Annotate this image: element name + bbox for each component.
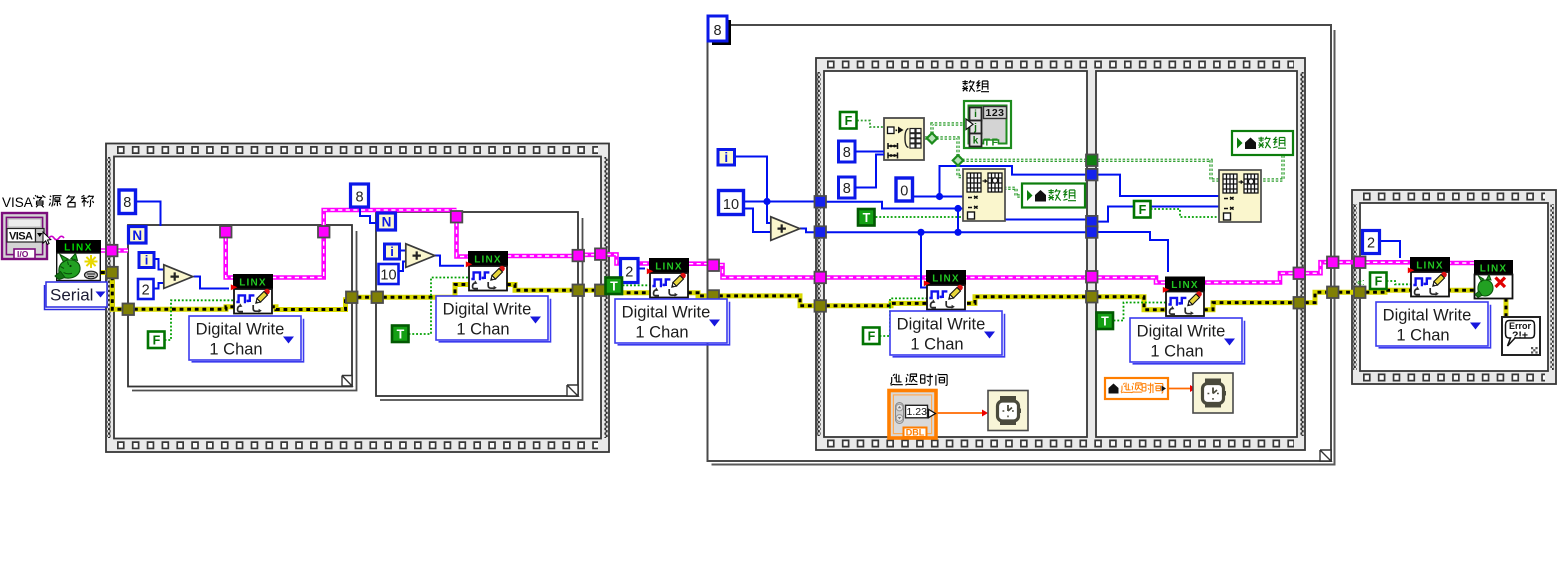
svg-text:8: 8 <box>355 190 363 206</box>
loop1 N terminal <box>129 227 147 244</box>
F constant (frame B) <box>1134 201 1151 218</box>
wire green: F_B to replace array B <box>1151 209 1223 217</box>
wire olive: out of big loop to frame3 <box>1305 290 1474 302</box>
svg-text:8: 8 <box>843 145 851 161</box>
numeric constant 8 (big loop count) with black shadow <box>708 16 731 45</box>
wire olive: inside big loop to frame A <box>719 296 816 306</box>
svg-text:VISA: VISA <box>9 231 33 243</box>
label digital write 3 <box>615 299 730 345</box>
tunnels (blue + green) <box>815 155 1098 238</box>
wire pink: inside big loop to frame A <box>719 265 816 278</box>
svg-text:?!+: ?!+ <box>1512 330 1528 342</box>
tunnel olive: big loop right <box>1327 287 1339 299</box>
wire blue: add2 to DW2 <box>433 256 464 266</box>
svg-text:1.23: 1.23 <box>907 406 928 418</box>
wire blue: 0 path up and over to divider <box>912 166 1090 197</box>
wire pink: to big loop right edge and frame3 <box>1305 262 1474 273</box>
numeric constant 8 (frame A lower) <box>839 177 856 198</box>
svg-text:N: N <box>382 215 392 230</box>
wire pink: DW3 to big loop <box>689 261 708 266</box>
replace array subset node A <box>963 169 1005 221</box>
tunnel olive: frame1 right <box>595 285 607 297</box>
tunnel pink: big loop left <box>708 260 720 272</box>
F constant loop1 <box>148 332 165 349</box>
tunnel blue: divider middle <box>1086 216 1098 228</box>
T constant (frame A) <box>858 209 875 226</box>
wire array: frame B long green into replace B <box>1098 156 1284 180</box>
wire blue: frame B top <box>1098 175 1223 196</box>
wire array: replace A out to local <box>1004 188 1022 196</box>
numeric constant 8 (loop2) <box>351 184 369 207</box>
wait (ms) block 1 <box>988 391 1028 431</box>
T constant loop2 <box>392 326 409 343</box>
big for loop (right) <box>708 25 1335 465</box>
tunnel olive: inner seq right <box>1294 297 1306 309</box>
tunnel blue: divider bottom <box>1086 226 1098 238</box>
wires: green array wires (thicker woven) <box>857 121 1283 197</box>
svg-text:0: 0 <box>900 184 908 200</box>
green diamond junctions on array wire <box>927 133 963 166</box>
svg-text:8: 8 <box>713 23 721 39</box>
wire olive: DW2 out to frame1 edge <box>507 285 595 291</box>
tunnel olive: inner seq divider <box>1086 291 1098 303</box>
tunnel blue: divider top <box>1086 169 1098 181</box>
numeric constant 2 (middle) <box>621 259 639 283</box>
red arrow into wait block 2 <box>1190 385 1196 392</box>
tunnel blue: inner seq left upper <box>815 196 827 208</box>
wire pink squiggle from VISA to LINX open <box>49 236 64 240</box>
flat sequence frame 3 (far right) <box>1352 190 1556 384</box>
svg-text:DBL: DBL <box>906 428 925 438</box>
wire pink: frame B through DW5 <box>1098 273 1294 282</box>
T constant (frame B, for DW5) <box>1097 313 1114 330</box>
tunnels (olive) <box>106 267 1365 315</box>
svg-text:k: k <box>973 136 979 147</box>
svg-text:10: 10 <box>723 197 739 213</box>
wire olive: between loops <box>358 285 470 298</box>
wires: pink LINX resource wires <box>101 210 1474 283</box>
wire blue: const 2 to add <box>153 283 165 289</box>
add node 3 <box>771 217 800 241</box>
wire blue: 8 to N of loop1 <box>135 202 161 227</box>
replace array subset node B <box>1219 170 1261 222</box>
wire olive: LINX close down to error out <box>1504 298 1509 318</box>
LINX digital write 4 (frame A) <box>924 270 966 310</box>
wire olive: frame B through DW5 <box>1098 297 1294 310</box>
wire green: F to DW6 <box>1387 281 1412 284</box>
label digital write 1 <box>189 316 304 362</box>
for loop 2 (inside frame 1) <box>376 212 583 400</box>
label digital write 5 <box>1130 318 1245 364</box>
local variable array (frame A) <box>1022 184 1085 208</box>
orange wires <box>937 389 1196 414</box>
label digital write 4 <box>890 311 1005 357</box>
tunnel pink: loop2 right <box>573 250 585 261</box>
tunnel pink: loop1 top left <box>220 226 232 238</box>
wires: olive error cluster wires <box>101 273 1506 319</box>
LINX digital write 5 (frame B) <box>1163 277 1205 317</box>
wire blue: i1 to add <box>154 259 164 270</box>
label delay time (yan chi shi jian) <box>890 374 947 386</box>
svg-text:LINX: LINX <box>64 243 93 254</box>
svg-text:N: N <box>132 228 142 243</box>
svg-text:2: 2 <box>625 265 633 281</box>
svg-text:8: 8 <box>843 181 851 197</box>
wire green: T to DW3 <box>623 284 651 286</box>
tunnel olive: loop1 left <box>123 304 135 316</box>
wire pink: over loops to loop2, into DW2 <box>324 210 469 257</box>
numeric constant 10 <box>379 264 399 284</box>
add node 1 <box>164 265 193 289</box>
wire green: F to DW4 <box>880 298 928 336</box>
svg-text:10: 10 <box>380 268 396 284</box>
numeric constant 2 <box>138 279 154 299</box>
tunnel pink: frame1 right <box>595 248 607 260</box>
tunnel olive: loop2 left <box>372 292 384 304</box>
svg-text:i: i <box>724 150 728 165</box>
wire blue: add3 out to frame A tunnel <box>800 229 816 233</box>
inner flat sequence (2 frames) inside big loop <box>816 58 1305 450</box>
F constant (frame A top) <box>840 112 857 129</box>
VISA resource name control <box>2 213 51 259</box>
label digital write 2 <box>436 296 551 342</box>
tunnel olive: frame3 left <box>1354 287 1366 299</box>
wire blue: 10 to frame A tunnel <box>744 201 816 203</box>
LINX close block <box>1474 260 1513 299</box>
for loop 1 (inside frame 1) <box>128 225 357 391</box>
LINX open (serial init) block <box>55 240 101 281</box>
svg-text:8: 8 <box>123 195 131 211</box>
tunnel olive: loop2 right <box>573 285 585 297</box>
LINX digital write 3 (middle) <box>647 258 689 298</box>
wire green: T to DW2 <box>409 278 470 335</box>
svg-text:i: i <box>390 244 394 259</box>
wire pink: through DW4 to divider <box>826 275 1086 280</box>
numeric constant 8 (frame A upper) <box>839 141 856 162</box>
wire blue: 10 to add3 <box>744 209 774 233</box>
svg-text:123: 123 <box>985 107 1004 119</box>
error out indicator <box>1502 317 1540 355</box>
wire olive: loop1 to DW1 and out <box>134 297 346 309</box>
wire pink: LINX open to frame1 <box>101 248 128 253</box>
tunnel pink: loop2 top <box>451 211 463 223</box>
svg-text:VISA: VISA <box>2 195 33 210</box>
tunnel pink: loop1 top right <box>318 226 330 238</box>
tunnel pink: big loop right <box>1327 257 1339 269</box>
wire green: T to DW5 <box>1114 303 1167 321</box>
wire blue: 10 to add2 <box>398 262 407 272</box>
F constant (frame3) <box>1370 273 1387 290</box>
wire pink: loop1 internal to DW1 <box>226 237 324 278</box>
wire blue: add1 to DW1 <box>194 277 230 289</box>
loop2 i terminal <box>385 244 400 259</box>
wire blue: replace A out to divider <box>1004 219 1090 221</box>
loop2 N terminal <box>378 213 396 230</box>
wires: blue integer wires <box>135 157 1400 289</box>
svg-text:I/O: I/O <box>17 249 29 259</box>
wire blue: i3 down to add3 <box>736 157 774 224</box>
blue junction dots <box>763 193 961 236</box>
initialize array node <box>884 118 924 160</box>
tunnel pink: frame3 left <box>1354 257 1366 269</box>
wire array: F to initialize array <box>857 121 884 128</box>
wire green: F to DW1 <box>165 300 235 340</box>
svg-text:LINX: LINX <box>1480 263 1508 274</box>
wire pink: DW2 out to frame1 edge and middle DW3 <box>507 254 650 263</box>
local variable delay time (orange, frame B) <box>1105 378 1168 399</box>
label VISA resource name <box>2 195 94 210</box>
tunnel pink: frame1 left <box>106 245 118 256</box>
tunnel olive: big loop left <box>708 290 720 302</box>
delay time numeric control (orange DBL) <box>889 391 936 439</box>
tunnel olive: inner seq left <box>815 300 827 312</box>
array indicator (shu zu) <box>964 101 1011 149</box>
wire olive: LINX open down into loop1 <box>101 273 134 310</box>
wires: green boolean dotted <box>165 209 1412 340</box>
asterisk <box>85 255 98 268</box>
wire blue: 8 to N of loop2 <box>360 206 378 223</box>
big loop i terminal <box>718 150 735 166</box>
svg-text:«:: «: <box>1357 277 1365 287</box>
wire blue: 2 to DW6 <box>1379 241 1400 258</box>
T constant middle <box>606 278 623 295</box>
tunnel pink: inner seq left <box>815 272 827 284</box>
array wire light centers <box>925 124 1283 196</box>
label digital write 6 <box>1376 302 1491 348</box>
numeric constant 8 <box>119 190 136 214</box>
wire blue: frame A runs <box>826 202 965 233</box>
wire array: init out to indicator and diamonds <box>925 124 1086 177</box>
svg-text:i: i <box>145 253 149 268</box>
LINX digital write 1 (loop1) <box>231 274 273 314</box>
wire green: T to replace array A <box>876 216 966 218</box>
LINX digital write 2 (loop2) <box>466 251 508 291</box>
wire olive: middle section through DW3 <box>607 290 709 296</box>
loop1 i terminal <box>139 253 154 268</box>
wire orange: delay local to wait ms <box>1169 388 1197 390</box>
tunnel olive: loop1 right <box>346 292 358 304</box>
wire blue: i2 to add2 <box>399 250 407 252</box>
dog head icon <box>59 260 80 278</box>
wire olive: frame A through DW4 <box>826 297 1086 306</box>
tunnel olive: frame1 left <box>106 267 118 279</box>
add node 2 <box>406 244 435 268</box>
wire orange: delay control to wait ms <box>937 412 984 414</box>
tunnel pink: inner seq divider <box>1086 271 1098 283</box>
label array (shu zu) <box>962 80 989 92</box>
F constant (frame A, for DW4) <box>863 328 880 345</box>
tunnel pink: inner seq right <box>1294 268 1306 280</box>
wire blue: 2 to DW3 <box>638 268 645 270</box>
serial connector <box>85 271 98 279</box>
numeric constant 0 <box>896 178 913 201</box>
tunnels (magenta) <box>106 211 1366 283</box>
wait (ms) block 2 <box>1193 373 1233 413</box>
svg-text:2: 2 <box>142 283 150 299</box>
svg-text:TF: TF <box>984 137 1000 149</box>
tunnel blue: inner seq left lower <box>815 226 827 238</box>
red arrow into wait block 1 <box>982 410 988 417</box>
numeric constant 2 (frame3) <box>1363 231 1380 254</box>
svg-text:i: i <box>974 109 977 120</box>
svg-text:2: 2 <box>1367 236 1375 252</box>
Serial ring constant <box>45 282 108 310</box>
LINX digital write 6 (frame3) <box>1408 257 1450 297</box>
tunnel green: divider array <box>1086 155 1098 167</box>
local variable array (frame B) <box>1232 131 1293 155</box>
numeric constant 10 (big loop) <box>719 191 744 215</box>
svg-text:Serial: Serial <box>50 286 93 305</box>
wire blue: 8s to initialize array <box>855 152 884 188</box>
flat sequence frame 1 (left) <box>106 144 609 453</box>
